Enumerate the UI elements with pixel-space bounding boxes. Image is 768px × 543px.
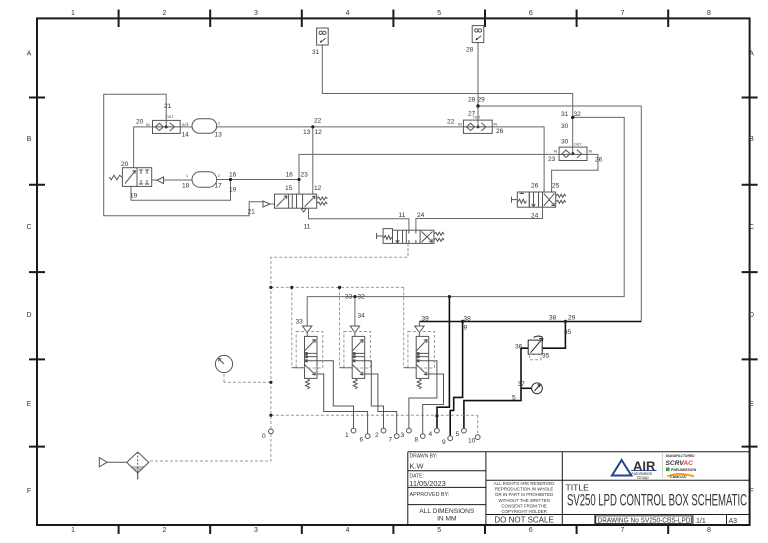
svg-text:12: 12 <box>314 185 322 192</box>
svg-text:22: 22 <box>447 119 455 126</box>
svg-text:5: 5 <box>456 431 460 438</box>
svg-text:31: 31 <box>312 49 320 56</box>
svg-text:E: E <box>749 401 754 408</box>
svg-text:A: A <box>27 51 32 58</box>
svg-text:IN: IN <box>458 123 462 127</box>
svg-text:20: 20 <box>121 161 129 168</box>
svg-text:6: 6 <box>529 527 533 534</box>
svg-text:OUT: OUT <box>166 115 174 119</box>
svg-text:5: 5 <box>437 10 441 17</box>
svg-text:29: 29 <box>568 315 576 322</box>
svg-text:OR IN PART IS PROHIBITED: OR IN PART IS PROHIBITED <box>495 492 553 497</box>
svg-text:D: D <box>26 312 31 319</box>
svg-text:29: 29 <box>478 97 486 104</box>
svg-text:38: 38 <box>464 316 472 323</box>
svg-text:A3: A3 <box>729 518 738 525</box>
svg-text:30: 30 <box>561 139 569 146</box>
svg-text:APPROVED BY:: APPROVED BY: <box>410 492 450 498</box>
svg-text:REPRODUCTION IN WHOLE: REPRODUCTION IN WHOLE <box>495 487 554 492</box>
svg-text:Group: Group <box>637 475 649 480</box>
svg-text:25: 25 <box>552 183 560 190</box>
svg-text:8: 8 <box>707 10 711 17</box>
svg-text:6: 6 <box>529 10 533 17</box>
svg-text:2: 2 <box>162 527 166 534</box>
svg-text:8: 8 <box>415 437 419 444</box>
svg-text:7: 7 <box>389 437 393 444</box>
svg-text:5: 5 <box>437 527 441 534</box>
svg-text:DRAWN BY:: DRAWN BY: <box>410 454 438 460</box>
svg-text:35: 35 <box>564 329 572 336</box>
svg-text:1: 1 <box>186 174 188 178</box>
svg-text:ALL DIMENSIONS: ALL DIMENSIONS <box>419 508 475 515</box>
svg-text:IN MM: IN MM <box>437 515 456 522</box>
svg-text:CONSENT FROM THE: CONSENT FROM THE <box>501 503 547 508</box>
svg-text:9: 9 <box>442 439 446 446</box>
svg-text:19: 19 <box>229 187 237 194</box>
svg-text:24: 24 <box>417 212 425 219</box>
svg-text:39: 39 <box>422 316 430 323</box>
svg-text:1: 1 <box>71 527 75 534</box>
svg-text:K.W: K.W <box>410 462 424 471</box>
svg-text:WITHOUT THE WRITTEN: WITHOUT THE WRITTEN <box>498 498 550 503</box>
svg-text:12: 12 <box>315 129 323 136</box>
svg-text:26: 26 <box>595 157 603 164</box>
svg-text:3: 3 <box>254 527 258 534</box>
svg-text:26: 26 <box>531 183 539 190</box>
svg-text:3: 3 <box>254 10 258 17</box>
svg-text:C: C <box>26 224 31 231</box>
svg-text:20: 20 <box>136 119 144 126</box>
svg-text:30: 30 <box>561 123 569 130</box>
svg-text:7: 7 <box>620 10 624 17</box>
svg-text:1/1: 1/1 <box>696 518 706 525</box>
svg-text:MANUFACTURED: MANUFACTURED <box>666 454 695 458</box>
svg-text:13: 13 <box>303 129 311 136</box>
svg-text:CAMOZZI: CAMOZZI <box>670 475 686 479</box>
svg-text:C: C <box>749 224 754 231</box>
svg-text:33: 33 <box>296 319 304 326</box>
svg-text:4: 4 <box>429 431 433 438</box>
svg-text:23: 23 <box>548 156 556 163</box>
svg-text:16: 16 <box>229 172 237 179</box>
svg-text:SV250 LPD CONTROL BOX SCHEMATI: SV250 LPD CONTROL BOX SCHEMATIC <box>567 492 747 510</box>
svg-text:IN: IN <box>494 123 498 127</box>
svg-text:28: 28 <box>468 97 476 104</box>
svg-text:DO NOT SCALE: DO NOT SCALE <box>494 515 553 524</box>
svg-text:35: 35 <box>542 353 550 360</box>
svg-text:IN: IN <box>146 123 150 127</box>
svg-text:ALL RIGHTS ARE RESERVED: ALL RIGHTS ARE RESERVED <box>494 481 555 486</box>
svg-text:34: 34 <box>358 313 366 320</box>
svg-text:6: 6 <box>360 437 364 444</box>
svg-text:38: 38 <box>549 315 557 322</box>
svg-text:PNEUMISSION: PNEUMISSION <box>671 468 697 472</box>
svg-text:22: 22 <box>314 118 322 125</box>
svg-text:33: 33 <box>345 294 353 301</box>
svg-text:IN: IN <box>554 150 558 154</box>
svg-text:SCRVAC: SCRVAC <box>666 460 694 467</box>
svg-text:21: 21 <box>164 103 172 110</box>
svg-text:F: F <box>749 488 753 495</box>
svg-text:IN: IN <box>589 150 593 154</box>
svg-text:32: 32 <box>358 294 366 301</box>
svg-text:32: 32 <box>574 111 582 118</box>
svg-text:B: B <box>27 136 32 143</box>
svg-text:2: 2 <box>162 10 166 17</box>
svg-text:18: 18 <box>182 183 190 190</box>
svg-text:4: 4 <box>346 10 350 17</box>
svg-text:B: B <box>749 136 754 143</box>
svg-text:OUT: OUT <box>473 116 481 120</box>
svg-text:7: 7 <box>620 527 624 534</box>
svg-text:19: 19 <box>130 193 138 200</box>
svg-text:24: 24 <box>531 213 539 220</box>
svg-text:36: 36 <box>515 344 523 351</box>
svg-text:31: 31 <box>561 111 569 118</box>
svg-text:3: 3 <box>401 432 405 439</box>
svg-text:E: E <box>27 401 32 408</box>
svg-text:13: 13 <box>215 132 223 139</box>
svg-text:11/05/2023: 11/05/2023 <box>409 479 445 488</box>
svg-text:4: 4 <box>346 527 350 534</box>
svg-text:8: 8 <box>707 527 711 534</box>
svg-text:2: 2 <box>218 122 220 126</box>
svg-text:OUT: OUT <box>574 143 582 147</box>
svg-text:11: 11 <box>399 212 406 219</box>
svg-text:1: 1 <box>345 432 349 439</box>
svg-text:23: 23 <box>301 172 309 179</box>
svg-text:2: 2 <box>218 174 220 178</box>
svg-text:16: 16 <box>286 172 294 179</box>
svg-text:D: D <box>749 312 754 319</box>
svg-text:0: 0 <box>262 433 266 440</box>
svg-text:14: 14 <box>182 132 190 139</box>
svg-text:17: 17 <box>215 183 223 190</box>
svg-text:1: 1 <box>186 122 188 126</box>
svg-text:9: 9 <box>464 325 468 332</box>
svg-text:37: 37 <box>518 381 526 388</box>
svg-text:26: 26 <box>496 128 504 135</box>
svg-text:15: 15 <box>285 185 293 192</box>
svg-text:1: 1 <box>71 10 75 17</box>
svg-text:10: 10 <box>468 438 476 445</box>
svg-text:5: 5 <box>512 395 516 402</box>
svg-text:28: 28 <box>466 47 474 54</box>
svg-text:DRAWING No SV250-CBS-LPD: DRAWING No SV250-CBS-LPD <box>598 518 691 525</box>
svg-text:A: A <box>749 51 754 58</box>
svg-text:11: 11 <box>304 224 311 231</box>
svg-text:COPYRIGHT HOLDER: COPYRIGHT HOLDER <box>501 509 547 514</box>
svg-text:F: F <box>27 488 31 495</box>
svg-text:21: 21 <box>248 209 256 216</box>
svg-text:2: 2 <box>375 432 379 439</box>
